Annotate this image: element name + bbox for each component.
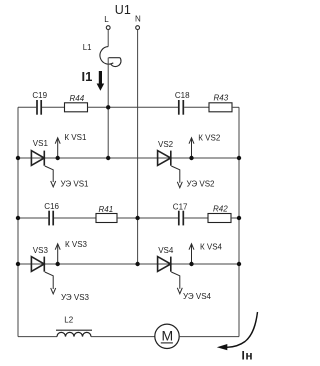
svg-text:C16: C16 — [44, 202, 59, 211]
wire C18 to R43 — [184, 106, 209, 108]
svg-text:УЭ VS3: УЭ VS3 — [61, 293, 90, 302]
svg-text:R44: R44 — [70, 94, 85, 103]
load current arrow Iн — [217, 312, 258, 350]
svg-text:R41: R41 — [99, 205, 114, 214]
wire C19 to R44 — [42, 106, 65, 108]
junction row4-right bus — [237, 262, 241, 266]
junction row2-right bus — [237, 156, 241, 160]
svg-text:N: N — [135, 14, 141, 23]
thyristor VS4 — [158, 257, 171, 272]
svg-text:I1: I1 — [82, 69, 93, 84]
svg-text:C18: C18 — [175, 91, 190, 100]
junction row2-left bus — [16, 156, 20, 160]
junction row2-L wire — [106, 156, 110, 160]
svg-text:M: M — [162, 327, 174, 343]
svg-text:L: L — [104, 15, 109, 24]
junction row3-left bus — [16, 216, 20, 220]
svg-text:К VS2: К VS2 — [198, 133, 221, 142]
junction K VS2 — [189, 156, 193, 160]
svg-text:R43: R43 — [214, 93, 229, 102]
svg-text:К VS3: К VS3 — [65, 240, 88, 249]
svg-text:VS4: VS4 — [158, 246, 174, 255]
junction row4-N wire — [135, 262, 139, 266]
left bus — [17, 107, 19, 336]
svg-text:C19: C19 — [32, 91, 47, 100]
cathode arrow K VS2 — [189, 138, 194, 158]
cathode arrow K VS4 — [189, 244, 194, 264]
motor M1 — [155, 324, 179, 348]
svg-text:C17: C17 — [173, 202, 188, 211]
svg-text:U1: U1 — [115, 3, 131, 17]
svg-text:VS3: VS3 — [33, 246, 49, 255]
junction K VS3 — [56, 262, 60, 266]
svg-text:К VS4: К VS4 — [200, 242, 223, 251]
junction K VS1 — [56, 156, 60, 160]
current arrow I1 — [97, 71, 105, 91]
wire R42 to right bus — [231, 217, 239, 219]
bottom wire left — [18, 336, 57, 338]
junction row3-N wire — [135, 216, 139, 220]
thyristor VS1 — [31, 151, 44, 166]
junction K VS4 — [189, 262, 193, 266]
thyristor VS2 — [158, 151, 171, 166]
wire row3 left — [18, 217, 48, 219]
svg-text:VS2: VS2 — [158, 140, 174, 149]
svg-text:L1: L1 — [83, 43, 92, 52]
gate arrow УЭ VS4 — [171, 272, 182, 294]
capacitor C17 — [179, 211, 184, 226]
capacitor C16 — [49, 211, 53, 226]
inductor L2 — [56, 330, 92, 336]
terminal L — [106, 26, 110, 30]
terminal N — [136, 26, 140, 30]
resistor R41 — [96, 214, 117, 223]
svg-text:L2: L2 — [64, 315, 73, 324]
right bus — [238, 107, 240, 336]
wire row1 left — [18, 106, 36, 108]
cathode arrow K VS3 — [55, 244, 60, 264]
resistor R42 — [208, 214, 231, 223]
svg-text:УЭ VS4: УЭ VS4 — [183, 292, 212, 301]
wire C16 to R41 — [54, 217, 96, 219]
wire L2 to motor — [91, 336, 155, 338]
gate arrow УЭ VS3 — [45, 272, 56, 294]
wire L terminal down — [107, 30, 109, 47]
resistor R43 — [209, 103, 232, 112]
junction row3-right bus — [237, 216, 241, 220]
svg-text:Iн: Iн — [242, 349, 254, 363]
cathode arrow K VS1 — [55, 138, 60, 158]
svg-text:К VS1: К VS1 — [64, 133, 87, 142]
resistor R44 — [65, 103, 88, 112]
svg-text:VS1: VS1 — [33, 139, 49, 148]
capacitor C18 — [179, 100, 184, 115]
gate arrow УЭ VS1 — [45, 166, 56, 187]
svg-text:R42: R42 — [213, 204, 228, 213]
thyristor VS3 — [31, 257, 44, 272]
junction row4-left bus — [16, 262, 20, 266]
wire R41 to C17 — [117, 217, 178, 219]
wire L1 to VS row — [107, 58, 109, 158]
wire row4 — [18, 263, 239, 265]
wire motor to right bus — [179, 336, 239, 338]
capacitor C19 — [37, 100, 41, 115]
wire N terminal down — [137, 30, 139, 264]
junction row1-L wire — [106, 105, 110, 109]
wire R43 to right bus — [232, 106, 239, 108]
wire C17 to R42 — [184, 217, 208, 219]
svg-text:УЭ VS1: УЭ VS1 — [61, 180, 90, 189]
inductor L1 — [100, 47, 121, 67]
svg-text:УЭ VS2: УЭ VS2 — [187, 180, 216, 189]
gate arrow УЭ VS2 — [171, 166, 182, 188]
wire row2 — [18, 157, 239, 159]
wire R44 to C18 — [88, 106, 179, 108]
